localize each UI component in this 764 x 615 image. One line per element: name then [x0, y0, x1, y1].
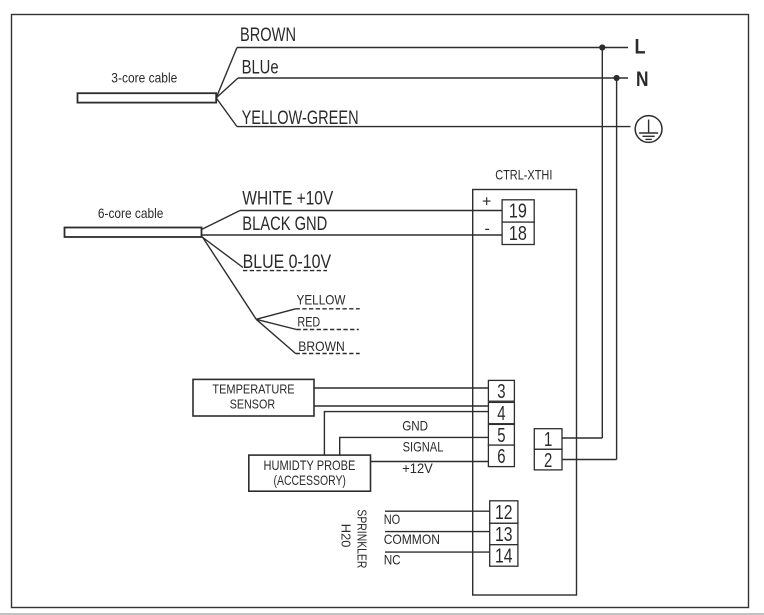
wire NC to terminal 14 — [384, 551, 490, 567]
svg-text:H20: H20 — [339, 524, 354, 548]
terminal 19 — [502, 200, 534, 223]
svg-text:6: 6 — [497, 446, 505, 468]
protective earth symbol — [635, 116, 662, 143]
wire BROWN (line L) — [237, 25, 628, 48]
svg-text:HUMIDTY PROBE: HUMIDTY PROBE — [264, 457, 356, 473]
wire WHITE +10V — [240, 189, 502, 211]
svg-text:N: N — [636, 68, 649, 91]
bottom page edge strip — [0, 613, 764, 615]
node N junction — [614, 75, 620, 81]
label L — [635, 36, 646, 59]
label + polarity — [482, 194, 491, 211]
svg-text:3: 3 — [497, 381, 505, 403]
label CTRL-XTHI — [495, 167, 552, 183]
svg-text:CTRL-XTHI: CTRL-XTHI — [495, 167, 552, 183]
svg-text:SPRINKLER: SPRINKLER — [355, 509, 370, 568]
svg-text:1: 1 — [544, 429, 552, 451]
terminal 5 — [488, 424, 514, 447]
wire terminal 1 to L — [562, 437, 602, 439]
svg-text:L: L — [635, 36, 646, 59]
svg-text:13: 13 — [495, 524, 513, 546]
svg-text:BROWN: BROWN — [240, 25, 296, 46]
wire YELLOW-GREEN (earth) — [237, 108, 631, 129]
wire L vertical drop — [601, 48, 603, 439]
svg-text:-: - — [485, 221, 490, 238]
svg-text:BLUe: BLUe — [242, 58, 279, 79]
svg-text:6-core cable: 6-core cable — [98, 205, 164, 221]
wire BLUE 0-10V (dashed) — [243, 252, 332, 273]
svg-text:BROWN: BROWN — [298, 338, 345, 354]
terminal 3 — [488, 380, 514, 403]
node L junction — [599, 44, 605, 50]
wire RED (dashed) — [297, 313, 359, 329]
humidity probe box — [249, 455, 371, 491]
wire COMMON to terminal 13 — [384, 531, 490, 547]
svg-text:18: 18 — [509, 223, 527, 245]
svg-text:5: 5 — [497, 425, 505, 447]
svg-text:BLUE 0-10V: BLUE 0-10V — [243, 252, 332, 273]
node auxiliary bundle — [256, 309, 296, 354]
wire fan from 3-core cable — [216, 48, 238, 127]
svg-text:YELLOW: YELLOW — [297, 291, 347, 307]
terminal 4 — [488, 402, 514, 425]
wire BLACK GND — [202, 214, 503, 235]
label SPRINKLER H2O (vertical) — [339, 509, 370, 568]
svg-text:+: + — [482, 194, 491, 211]
wire BLUe (neutral) — [238, 58, 628, 79]
terminal 1 — [534, 429, 562, 452]
svg-text:BLACK GND: BLACK GND — [242, 214, 327, 235]
controller CTRL-XTHI box — [473, 190, 577, 596]
wire temp sensor to terminal 4 — [314, 405, 488, 407]
6-core cable — [65, 228, 202, 238]
svg-text:4: 4 — [497, 403, 505, 425]
wire N vertical drop — [616, 78, 618, 460]
svg-text:COMMON: COMMON — [384, 531, 440, 547]
label - polarity — [485, 221, 490, 238]
svg-text:2: 2 — [544, 450, 552, 472]
svg-text:(ACCESSORY): (ACCESSORY) — [274, 472, 346, 488]
svg-text:NC: NC — [384, 551, 401, 567]
svg-text:19: 19 — [509, 200, 527, 222]
label N — [636, 68, 649, 91]
3-core cable — [78, 93, 217, 102]
svg-text:14: 14 — [495, 546, 513, 568]
wire fan from 6-core cable — [202, 211, 257, 320]
svg-text:RED: RED — [297, 313, 320, 329]
temperature sensor box — [193, 379, 314, 416]
svg-text:YELLOW-GREEN: YELLOW-GREEN — [242, 108, 359, 129]
wire YELLOW (dashed) — [296, 291, 360, 308]
terminal 6 — [488, 445, 514, 468]
svg-text:+12V: +12V — [402, 460, 433, 476]
wire +12V to terminal 6 — [371, 460, 489, 476]
svg-text:3-core cable: 3-core cable — [111, 70, 177, 86]
svg-text:GND: GND — [402, 417, 428, 433]
wire BROWN aux (dashed) — [296, 338, 360, 354]
svg-text:WHITE +10V: WHITE +10V — [242, 189, 333, 210]
terminal 14 — [490, 545, 518, 568]
label 6-core cable — [98, 205, 164, 221]
terminal 18 — [502, 222, 534, 245]
terminal 2 — [534, 449, 562, 472]
terminal 13 — [490, 523, 518, 546]
svg-text:NO: NO — [384, 511, 401, 527]
label 3-core cable — [111, 70, 177, 86]
svg-text:12: 12 — [495, 502, 513, 524]
svg-text:SENSOR: SENSOR — [230, 397, 275, 412]
svg-text:SIGNAL: SIGNAL — [403, 439, 444, 455]
wire GND to terminal 4 — [324, 412, 488, 456]
wire temp sensor to terminal 3 — [314, 387, 488, 389]
svg-text:TEMPERATURE: TEMPERATURE — [212, 381, 294, 396]
terminal 12 — [490, 501, 518, 524]
wire NO to terminal 12 — [384, 511, 490, 527]
wire terminal 2 to N — [562, 459, 617, 461]
wire SIGNAL to terminal 5 — [340, 437, 489, 455]
